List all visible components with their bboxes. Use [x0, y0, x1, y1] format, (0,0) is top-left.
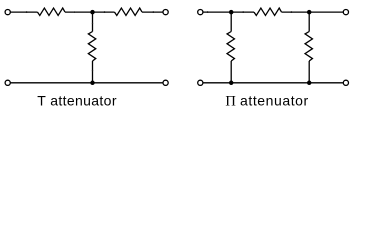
wire joint spot between node A and R2: [104, 11, 106, 13]
wire between R1 and node A: [65, 11, 93, 13]
svg-text:attenuator: attenuator: [240, 92, 309, 108]
resistor R1 (T series left): [38, 8, 66, 15]
resistor R3 (T shunt): [88, 32, 95, 62]
wire top-left segment of T network: [10, 11, 37, 13]
wire joint spot between node C and R4: [242, 11, 244, 13]
resistor R4 (Pi series): [254, 8, 282, 15]
resistor R6 (Pi shunt right): [305, 32, 312, 62]
wire node C to R4: [231, 11, 254, 13]
wire between node A and R2: [93, 11, 115, 13]
wire bottom rail of Pi network: [203, 82, 343, 84]
wire joint spot between R1 and node A: [74, 11, 76, 13]
wire joint spot between R2 and right terminal: [152, 11, 154, 13]
node D junction dot (Pi top right): [307, 10, 312, 15]
wire node C down to R5: [230, 12, 232, 31]
svg-text:Π: Π: [225, 93, 236, 109]
terminal top-right of Pi: [343, 10, 348, 15]
wire joint spot between R4 and node D: [290, 11, 292, 13]
node E junction dot (Pi bottom left): [229, 81, 234, 86]
wire joint spot on R3 lower lead: [92, 70, 93, 71]
wire R2 to right input terminal: [142, 11, 163, 13]
resistor R2 (T series right): [115, 8, 143, 15]
svg-text:T attenuator: T attenuator: [37, 92, 117, 108]
terminal bottom-right of Pi: [343, 80, 348, 85]
node A junction dot (T top): [90, 10, 95, 15]
wire joint spot on T input wire: [26, 11, 28, 13]
resistor R5 (Pi shunt left): [227, 32, 234, 62]
terminal bottom-right of T: [163, 80, 168, 85]
terminal top-right of T: [163, 10, 168, 15]
wire top-left segment of Pi network: [203, 11, 231, 13]
wire node D down to R6: [308, 12, 310, 31]
wire joint spot on node A drop wire: [92, 23, 93, 24]
wire node A down to R3: [92, 12, 94, 31]
wire R3 down to node B: [92, 61, 94, 83]
wire joint spot on Pi input wire: [207, 11, 209, 13]
wire R6 down to bottom rail: [308, 61, 310, 83]
terminal bottom-left of T: [5, 80, 10, 85]
wire R4 to node D: [282, 11, 310, 13]
node B junction dot (T bottom): [90, 81, 95, 86]
terminal top-left of Pi: [198, 10, 203, 15]
wire R5 down to bottom rail: [230, 61, 232, 83]
node F junction dot (Pi bottom right): [307, 81, 312, 86]
node C junction dot (Pi top left): [229, 10, 234, 15]
terminal bottom-left of Pi: [198, 80, 203, 85]
wire bottom rail of T network: [10, 82, 163, 84]
wire node D to right terminal of Pi: [309, 11, 343, 13]
terminal top-left of T: [5, 10, 10, 15]
